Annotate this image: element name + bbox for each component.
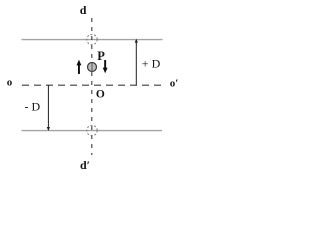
node o-o' horizontal dashed axis — [22, 84, 162, 86]
particle P (gray disk) — [88, 63, 97, 72]
down arrow right of particle — [103, 60, 108, 73]
up arrow left of particle — [77, 60, 82, 74]
node d-d' vertical dashed axis — [91, 18, 93, 155]
svg-text:P: P — [97, 49, 105, 63]
svg-text:d: d — [80, 3, 87, 17]
svg-text:o′: o′ — [170, 77, 179, 89]
svg-text:O: O — [96, 89, 105, 101]
svg-text:- D: - D — [25, 99, 41, 113]
-D measurement arrow (vertical, arrowhead down) — [47, 85, 50, 131]
svg-text:+ D: + D — [142, 56, 161, 70]
bottom dashed circle (image position on bottom line) — [87, 125, 97, 135]
wire: top horizontal solid line — [22, 39, 163, 41]
svg-text:o: o — [7, 77, 13, 89]
top dashed circle (image position on top line) — [87, 34, 97, 44]
+D measurement arrow (vertical, arrowhead up) — [135, 39, 138, 86]
svg-text:d′: d′ — [80, 158, 90, 172]
wire: bottom horizontal solid line — [22, 130, 163, 132]
